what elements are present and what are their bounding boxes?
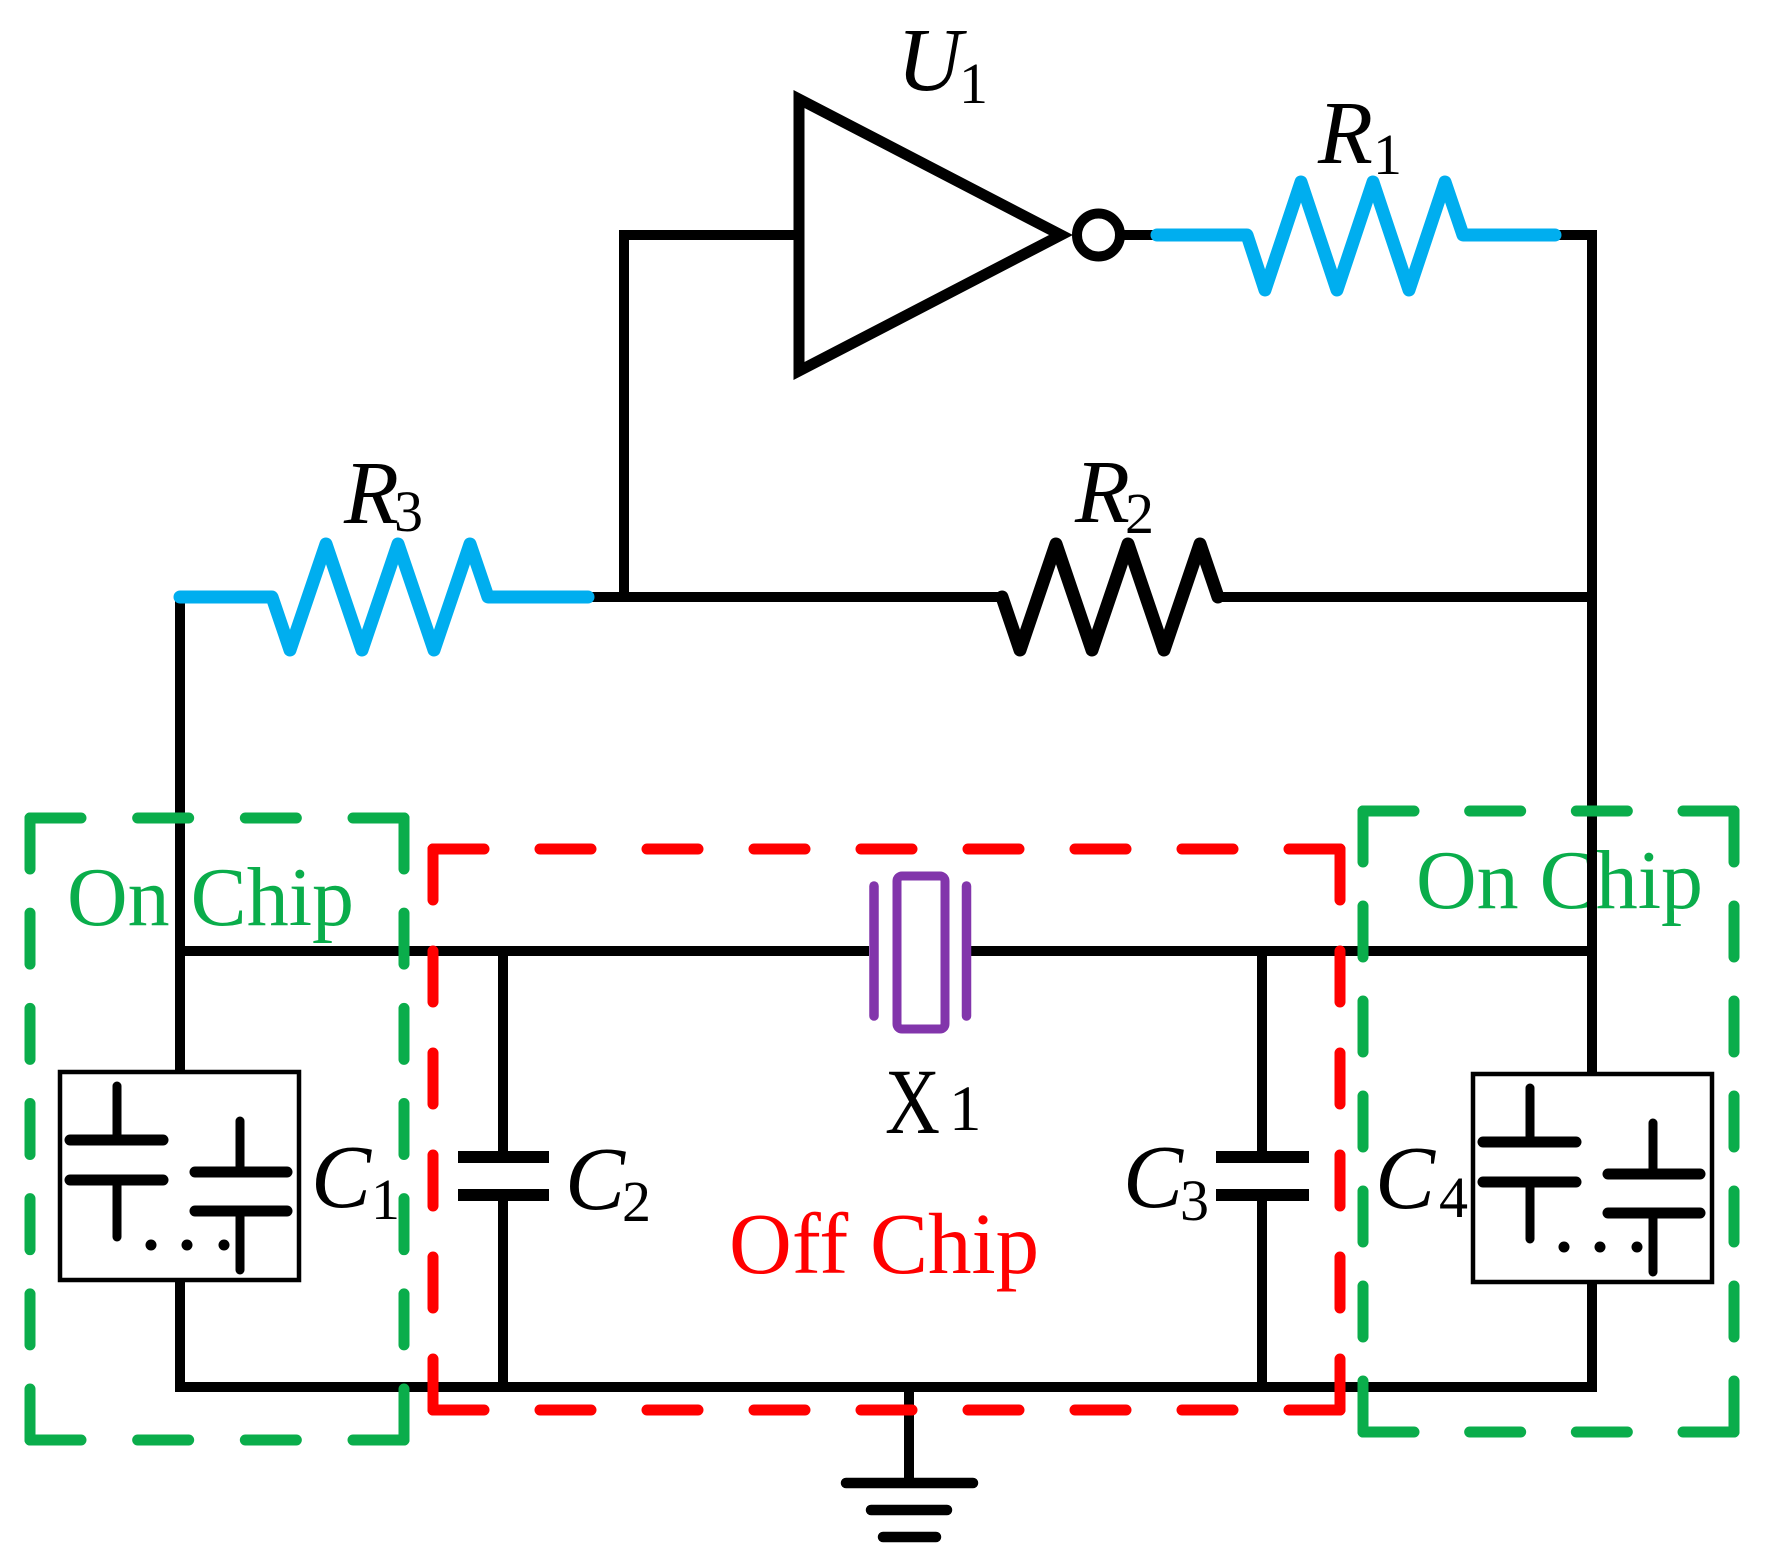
svg-text:1: 1 <box>371 1167 400 1232</box>
svg-text:R: R <box>343 444 399 543</box>
svg-text:U: U <box>897 11 967 110</box>
svg-text:Off Chip: Off Chip <box>729 1195 1039 1292</box>
svg-text:2: 2 <box>1125 481 1154 546</box>
svg-text:1: 1 <box>959 51 988 116</box>
svg-text:3: 3 <box>1180 1168 1209 1233</box>
svg-text:X: X <box>885 1051 940 1154</box>
svg-text:R: R <box>1317 84 1373 183</box>
svg-text:C: C <box>1123 1128 1184 1227</box>
svg-text:1: 1 <box>949 1073 982 1145</box>
svg-text:2: 2 <box>622 1169 651 1234</box>
svg-text:1: 1 <box>1373 122 1402 187</box>
svg-text:3: 3 <box>394 479 423 544</box>
svg-text:On Chip: On Chip <box>67 851 354 944</box>
svg-text:C: C <box>311 1128 372 1227</box>
svg-text:R: R <box>1074 443 1130 542</box>
svg-text:On Chip: On Chip <box>1416 834 1703 927</box>
svg-text:C: C <box>565 1130 626 1229</box>
svg-text:4: 4 <box>1439 1165 1468 1230</box>
svg-text:C: C <box>1375 1129 1436 1228</box>
